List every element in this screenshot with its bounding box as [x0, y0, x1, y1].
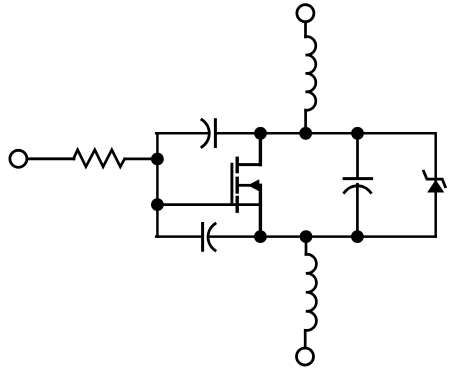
transistor Q1 gate bar: [230, 164, 233, 204]
wire (C2 to node F): [209, 235, 261, 238]
inductor L1 (top): [306, 37, 316, 111]
capacitor C2 (bottom feedback, curved right plate): [201, 224, 204, 251]
wire (node C to node D): [261, 132, 306, 135]
capacitor C1 (top feedback, curved left plate): [202, 120, 209, 147]
inductor L2 (bottom): [306, 254, 317, 330]
wire (bottom rail: left corner to C2): [156, 235, 202, 238]
diode D1 (zener) triangle: [427, 180, 444, 193]
terminal J2 (top): [297, 5, 314, 22]
node C (drain node): [254, 127, 267, 140]
transistor Q1 channel segment (source): [235, 197, 238, 211]
wire (top rail: left corner to C1): [156, 132, 209, 135]
wire (Q1 drain lead horizontal): [237, 163, 260, 166]
wire (L2 to J3): [304, 330, 307, 348]
node E (bypass cap top node): [351, 127, 364, 140]
diode D1 cathode bar with zener wings: [424, 171, 446, 187]
capacitor C3 (bypass, straight top plate): [344, 177, 372, 180]
resistor R1: [73, 150, 124, 167]
transistor Q1 channel segment (body): [235, 178, 238, 192]
wire (node D to node E): [306, 132, 358, 135]
node D (top inductor node): [299, 127, 312, 140]
wire (L1 to node D): [304, 110, 307, 133]
node B (gate lead junction): [151, 198, 164, 211]
node H (bypass cap bottom node): [351, 230, 364, 243]
transistor Q1 channel segment (drain): [235, 158, 238, 171]
node G (bottom inductor node): [300, 230, 313, 243]
wire (R1 to node A): [125, 157, 158, 160]
wire (Q1 drain vertical to node C): [259, 133, 262, 164]
wire (Q1 body lead horizontal): [237, 184, 250, 187]
terminal J1 (input, left): [10, 150, 27, 167]
wire (gate lead from node B through Q1 source lead): [157, 203, 260, 206]
capacitor C3 curved bottom plate: [344, 186, 370, 193]
wire (node G to L2): [305, 237, 308, 255]
node F (source node): [254, 230, 267, 243]
wire (Q1 source vertical to node F): [259, 185, 262, 236]
wire (C1 to node C): [215, 132, 260, 135]
wire (node E down to C3): [356, 133, 359, 178]
wire (node G to node H): [306, 235, 357, 238]
wire (left rail vertical): [156, 133, 159, 236]
wire (J1 to R1): [27, 157, 74, 160]
node A (input/gate rail junction): [151, 153, 164, 166]
wire (C3 to node H): [356, 184, 359, 236]
wire (node F to node G): [260, 235, 306, 238]
transistor Q1 body arrow (points left, N-channel): [248, 179, 259, 191]
wire (node E to top-right corner and down right rail): [358, 133, 436, 236]
terminal J3 (bottom): [297, 348, 314, 365]
wire (J2 to L1): [304, 22, 307, 37]
wire (node H to bottom-right corner): [357, 235, 435, 238]
